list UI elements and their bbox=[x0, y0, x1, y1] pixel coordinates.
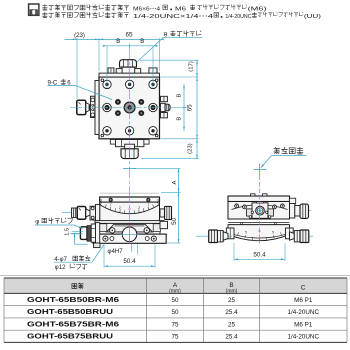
product table bbox=[4, 278, 347, 293]
svg-text:B: B bbox=[140, 38, 144, 45]
table header bbox=[72, 283, 83, 289]
side right lower knob bbox=[290, 235, 314, 237]
svg-text:B: B bbox=[116, 38, 120, 45]
front view centerline (over body) bbox=[129, 191, 131, 244]
front bridge band bbox=[99, 223, 160, 234]
svg-text:GOHT-65B75BRUU: GOHT-65B75BRUU bbox=[27, 334, 113, 341]
base mounting holes bbox=[103, 236, 108, 241]
svg-text:9: 9 bbox=[100, 198, 102, 202]
center hole bbox=[124, 102, 135, 113]
mid side dark holes bbox=[103, 103, 111, 111]
front view top plate bbox=[100, 197, 160, 202]
inner cluster holes (4 dark) bbox=[115, 99, 121, 105]
header line 2 bbox=[43, 12, 129, 18]
svg-text:1/4-20UNC×1/4⋯4: 1/4-20UNC×1/4⋯4 bbox=[133, 14, 214, 20]
dim A front bbox=[178, 169, 180, 193]
side right upper knob bbox=[292, 210, 311, 212]
side left knob bbox=[196, 235, 232, 237]
svg-text:2: 2 bbox=[119, 206, 121, 210]
svg-text:(17): (17) bbox=[188, 61, 194, 72]
dim 65 right bbox=[196, 77, 198, 139]
front base bbox=[93, 234, 166, 243]
svg-text:φ4H7: φ4H7 bbox=[108, 248, 124, 255]
right clamp assembly bbox=[161, 96, 168, 101]
svg-text:65: 65 bbox=[125, 32, 133, 39]
svg-text:75: 75 bbox=[172, 334, 180, 341]
svg-text:(23): (23) bbox=[74, 32, 85, 39]
svg-text:M6 P1: M6 P1 bbox=[294, 321, 313, 328]
svg-text:25.4: 25.4 bbox=[225, 309, 238, 316]
header note icon bbox=[29, 4, 39, 15]
svg-text:M6: M6 bbox=[175, 6, 187, 12]
svg-text:9: 9 bbox=[157, 198, 159, 202]
center hole phi4H7 bbox=[122, 227, 137, 242]
svg-text:50.4: 50.4 bbox=[123, 258, 136, 265]
svg-text:75: 75 bbox=[172, 321, 180, 328]
svg-text:GOHT-65B50BRUU: GOHT-65B50BRUU bbox=[27, 309, 113, 316]
svg-text:φ: φ bbox=[35, 219, 39, 226]
side upper band bbox=[228, 202, 290, 220]
rotation center mark bbox=[254, 169, 267, 171]
svg-text:(M6): (M6) bbox=[248, 6, 267, 12]
side lower cradle section bbox=[228, 225, 290, 241]
front right clamp knob bbox=[160, 209, 165, 217]
front knob centerline bbox=[62, 211, 99, 213]
front left upper knob bbox=[72, 208, 78, 217]
front lower-left clamp knob bbox=[80, 227, 87, 240]
svg-text:50: 50 bbox=[172, 309, 180, 316]
dim (23) bottom right bbox=[196, 139, 198, 159]
top view extension lines bbox=[76, 38, 78, 99]
svg-text:7: 7 bbox=[110, 203, 112, 207]
side top plate bbox=[228, 196, 290, 202]
top plate strip bbox=[99, 73, 160, 77]
svg-text:(23): (23) bbox=[188, 143, 194, 154]
svg-text:C: C bbox=[301, 285, 306, 292]
dim B B right bbox=[183, 84, 185, 130]
svg-text:25: 25 bbox=[228, 321, 236, 328]
dim B B top bbox=[106, 45, 153, 47]
svg-text:(mm): (mm) bbox=[226, 289, 238, 295]
front gonio arc section bbox=[100, 202, 160, 220]
left micrometer knob bbox=[77, 100, 86, 114]
separator line bbox=[0, 275, 350, 277]
svg-text:25: 25 bbox=[228, 297, 236, 304]
front mid strip bbox=[95, 221, 164, 224]
svg-text:M6×6⋯4: M6×6⋯4 bbox=[133, 6, 161, 12]
dim 65 top bbox=[95, 39, 99, 41]
top view centerlines (over body) bbox=[129, 48, 131, 191]
body holes 3x3 grid bbox=[103, 80, 111, 88]
svg-text:5: 5 bbox=[245, 231, 247, 235]
front view rotation-center line bbox=[123, 168, 136, 170]
svg-text:50.4: 50.4 bbox=[253, 251, 266, 258]
svg-text:M6 P1: M6 P1 bbox=[294, 297, 313, 304]
label rotation center bbox=[274, 147, 303, 154]
dim 50.4 side bbox=[233, 243, 235, 261]
bottom knob assembly bbox=[116, 140, 144, 147]
svg-text:φ12: φ12 bbox=[55, 264, 66, 271]
svg-text:A: A bbox=[172, 180, 178, 184]
header line 1 bbox=[43, 5, 129, 11]
svg-text:B: B bbox=[176, 117, 182, 121]
svg-text:1/4-20UNC: 1/4-20UNC bbox=[288, 309, 320, 316]
side centerline dashed (over body) bbox=[259, 176, 261, 244]
side mid lines bbox=[228, 222, 290, 224]
corner pin circles bbox=[101, 79, 104, 82]
svg-text:25.4: 25.4 bbox=[225, 334, 238, 341]
svg-text:50: 50 bbox=[172, 297, 180, 304]
svg-text:65: 65 bbox=[186, 104, 193, 112]
svg-text:1/4-20UNC: 1/4-20UNC bbox=[288, 334, 320, 341]
front view top surface faint line bbox=[100, 192, 159, 194]
svg-text:50: 50 bbox=[171, 217, 178, 225]
top clamp assembly bbox=[108, 68, 114, 73]
svg-text:7: 7 bbox=[148, 203, 150, 207]
svg-text:1.5: 1.5 bbox=[65, 228, 71, 236]
svg-text:B: B bbox=[176, 93, 182, 97]
svg-text:5: 5 bbox=[272, 231, 274, 235]
dim 50 front bbox=[178, 192, 180, 243]
dim (23) top bbox=[65, 38, 160, 40]
dim 50.4 front bbox=[103, 244, 105, 267]
svg-text:GOHT-65B50BR-M6: GOHT-65B50BR-M6 bbox=[27, 297, 119, 304]
svg-text:(UU): (UU) bbox=[304, 14, 321, 20]
svg-text:(mm): (mm) bbox=[169, 289, 181, 295]
svg-text:2: 2 bbox=[138, 206, 140, 210]
svg-text:1/4-20UNC: 1/4-20UNC bbox=[225, 14, 252, 20]
dim (17) right bbox=[196, 60, 198, 77]
left thin plate bbox=[95, 81, 99, 135]
svg-text:GOHT-65B75BR-M6: GOHT-65B75BR-M6 bbox=[27, 321, 119, 328]
top view body plate bbox=[99, 77, 160, 139]
